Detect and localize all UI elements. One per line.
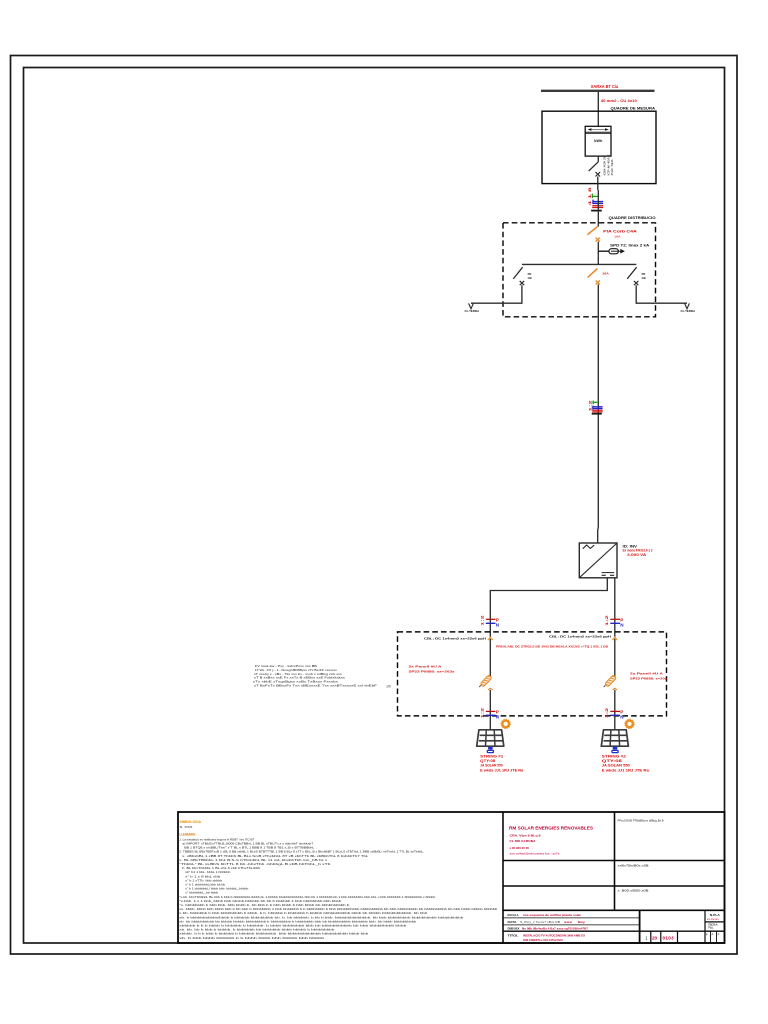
breaker F1 (orange)	[588, 227, 600, 242]
label: breaker F2	[602, 272, 609, 276]
svg-text:FULL: FULL	[709, 926, 714, 930]
svg-text:x 00 900 00 00: x 00 900 00 00	[510, 846, 530, 850]
svg-text:P: P	[706, 932, 708, 936]
wire: right PE drop	[636, 285, 687, 303]
svg-text:QTY:08: QTY:08	[480, 759, 495, 763]
breaker PE right	[627, 267, 645, 285]
svg-text:QTY:08: QTY:08	[602, 759, 622, 763]
wire: left PE drop	[471, 285, 522, 303]
svg-text:E wkds JJ1 1RJ JTE Ra: E wkds JJ1 1RJ JTE Ra	[480, 768, 523, 772]
svg-text:N.PLA: N.PLA	[710, 913, 720, 917]
svg-text:S. XXX: S. XXX	[180, 825, 193, 829]
label: cable spec acometida	[601, 99, 637, 103]
sun icon string 2	[624, 719, 634, 729]
DC fuse string 1 (hatched)	[479, 675, 500, 690]
svg-text:SOB COBERTA a XXX CATALUNYA: SOB COBERTA a XXX CATALUNYA	[523, 938, 564, 942]
connector string 2	[611, 747, 618, 754]
notes header	[180, 820, 202, 837]
wire: string 2 lower	[614, 690, 616, 730]
svg-text:IGM 40A 2P: IGM 40A 2P	[604, 155, 607, 176]
svg-text:P: P	[718, 932, 720, 936]
svg-text:CL.TERRA: CL.TERRA	[465, 309, 480, 313]
svg-text:SP22 P0888: xx=203x: SP22 P0888: xx=203x	[409, 669, 455, 673]
data row	[508, 920, 586, 924]
dibuix row	[508, 927, 589, 931]
junction chevron string 1 entry	[488, 637, 493, 640]
svg-text:xxx esquema de unifilar planta: xxx esquema de unifilar planta solar	[523, 913, 582, 917]
string combiner (dashed box)	[398, 632, 667, 716]
svg-text:CBL: DC 1x4mm2 xx=22x6 ppH: CBL: DC 1x4mm2 xx=22x6 ppH	[549, 634, 612, 638]
svg-text:20: 20	[652, 935, 658, 940]
svg-text:0103: 0103	[663, 935, 675, 940]
svg-text:1:2: 1:2	[589, 400, 593, 411]
svg-text:QUADRE DISTRIBUCIO: QUADRE DISTRIBUCIO	[609, 216, 656, 220]
svg-text:xx-xxxxx: xx-xxxxx	[707, 918, 720, 921]
project ref cell	[618, 819, 664, 823]
busbar: distribution	[522, 263, 636, 265]
svg-text:JA SOLAR 550: JA SOLAR 550	[602, 764, 630, 768]
titol row	[508, 933, 586, 942]
sun icon string 1	[501, 719, 511, 729]
svg-text:QUADRE DE MESURA: QUADRE DE MESURA	[611, 106, 656, 110]
connector string 1	[487, 747, 494, 754]
label: metering cabinet	[611, 106, 656, 110]
label: breaker ratings (vertical)	[604, 153, 614, 175]
wire: main run to inverter	[597, 284, 600, 543]
file cell	[618, 889, 649, 893]
svg-text:SP22 P0888: x=20x: SP22 P0888: x=20x	[630, 676, 667, 680]
svg-text:S_Rx(y_x Txxxx7 xBxL RB: S_Rx(y_x Txxxx7 xBxL RB	[520, 920, 560, 924]
cable marker: string 1 top	[479, 614, 499, 627]
notes body	[179, 837, 497, 939]
label: distribution board	[609, 216, 656, 220]
wire: string 1 lower	[489, 690, 491, 730]
svg-text:PIA Corb C4A: PIA Corb C4A	[603, 230, 637, 234]
wire: DC left string	[490, 578, 607, 676]
svg-text:CRA. VIps 8 BLq 8: CRA. VIps 8 BLq 8	[510, 834, 541, 838]
bus bar: utility grid	[541, 90, 655, 92]
svg-text:PPxxJG8 80 PTBxBBxxxx xBBxg_Bx: PPxxJG8 80 PTBxBBxxxx xBBxg_Bx B	[618, 819, 664, 823]
svg-text:PREALABL DC STRGLS BD JV02 DB: PREALABL DC STRGLS BD JV02 DB MSALA XX/J…	[496, 644, 608, 648]
PV array string 1	[477, 730, 504, 746]
svg-text:ICP-M 40A 2: ICP-M 40A 2	[607, 153, 610, 175]
cable marker: derivacion individual	[588, 187, 603, 210]
label: string 1 cable	[424, 637, 487, 641]
ground right	[681, 303, 696, 312]
svg-text:STRING #1: STRING #1	[480, 754, 503, 758]
svg-text:xxx: xxx	[564, 920, 573, 924]
meter M1	[585, 126, 611, 156]
label: SPD	[610, 243, 650, 247]
surge protector SPD	[598, 249, 625, 254]
junction chevron string 2 entry	[612, 637, 617, 640]
svg-text:TITOL: TITOL	[508, 933, 519, 937]
label: inverter	[623, 544, 653, 557]
svg-text:1:2: 1:2	[604, 614, 609, 626]
svg-text:ESCALA: ESCALA	[508, 913, 520, 917]
label: string 1 panels	[480, 754, 523, 772]
cable marker: string 2 top	[604, 614, 624, 627]
label: string 2 cable	[549, 634, 612, 638]
svg-text:LLEGENDA:: LLEGENDA:	[180, 833, 197, 837]
svg-text:P: P	[712, 932, 714, 936]
note block: design criteria	[253, 664, 377, 687]
node: utility grid label	[591, 84, 619, 89]
svg-text:Bxy: Bxy	[578, 920, 586, 924]
svg-text:CB: CB	[642, 276, 646, 280]
svg-text:z/h: z/h	[387, 685, 391, 689]
distribution board (dashed box)	[503, 223, 656, 317]
svg-text:16A: 16A	[614, 234, 621, 238]
breaker PE left	[513, 267, 531, 285]
svg-text:1:2: 1:2	[604, 706, 609, 718]
svg-text:x..B00.x/B00.x0B: x..B00.x/B00.x0B	[618, 889, 649, 893]
svg-text:4 1 8: 4 1 8	[588, 187, 592, 205]
svg-text:STRING #2: STRING #2	[602, 754, 626, 758]
svg-text:RM SOLAR ENERGIES RENOVABLES: RM SOLAR ENERGIES RENOVABLES	[509, 826, 593, 831]
svg-text:CBL: DC 1x4mm2 xx=22x6 ppH: CBL: DC 1x4mm2 xx=22x6 ppH	[424, 637, 487, 641]
svg-text:DIBUIX: DIBUIX	[508, 927, 520, 931]
wire: acometida	[597, 92, 599, 126]
svg-text:16A: 16A	[602, 272, 609, 276]
svg-text:1:2: 1:2	[479, 706, 484, 718]
label: string 1 rating	[409, 665, 455, 674]
company name	[509, 826, 593, 856]
DC fuse string 2 (hatched)	[604, 675, 617, 690]
wire: DC right string	[614, 578, 616, 676]
cable marker: string 2 bottom	[604, 706, 624, 719]
svg-text:xxx soflarl@wbsoxnba fxx - xx7: xxx soflarl@wbsoxnba fxx - xx7x	[510, 852, 560, 856]
label: string 2 rating	[630, 672, 667, 681]
svg-text:CL 800 GLRONA: CL 800 GLRONA	[510, 839, 537, 843]
svg-text:XARXA BT Cia: XARXA BT Cia	[591, 84, 619, 89]
svg-text:2x Panell #U A: 2x Panell #U A	[630, 672, 664, 676]
svg-text:No 08b 98x4xxBx 4 Bx7 xxxx x: No 08b 98x4xxBx 4 Bx7 xxxx xg7B BBAx47B7	[522, 927, 588, 931]
wire: down to SPD tap	[597, 242, 599, 265]
svg-text:E wkds JJ1 1RJ JTE Ra: E wkds JJ1 1RJ JTE Ra	[602, 768, 649, 772]
sheet number row	[645, 932, 720, 940]
svg-text:3.000 VA: 3.000 VA	[627, 553, 647, 557]
wire: to distribution board	[597, 190, 599, 227]
svg-text:kWh: kWh	[594, 139, 603, 143]
svg-text:1:2: 1:2	[479, 614, 484, 626]
PV array string 2	[601, 730, 628, 746]
svg-text:SPD T2: Imax 2 kA: SPD T2: Imax 2 kA	[610, 243, 650, 247]
plan number cell	[707, 913, 720, 921]
label: string 2 panels	[602, 754, 649, 772]
svg-text:CL.TERRA: CL.TERRA	[681, 309, 696, 313]
svg-text:PdC 6kA: PdC 6kA	[611, 159, 614, 176]
note block: tick mark	[387, 685, 391, 689]
title block frame	[178, 812, 725, 943]
label: combiner note	[496, 644, 608, 648]
svg-text:SIMBOLOGIA: SIMBOLOGIA	[180, 820, 202, 824]
svg-text:DATA: DATA	[508, 920, 518, 924]
svg-text:xxBx7Bx/B0x.x0B: xxBx7Bx/B0x.x0B	[618, 864, 649, 868]
svg-text:xb. b bbb bbbb bbbbbb b b bbbb: xb. b bbb bbbb bbbbbb b b bbbb bbbb.bbb …	[179, 936, 325, 940]
date cell	[618, 864, 649, 868]
metering cabinet box	[542, 111, 656, 183]
breaker F2 (orange)	[588, 269, 600, 285]
svg-text:xT BxFxTx BBxxFx Txx xBExxxxE: xT BxFxTx BBxxFx Txx xBExxxxE Txx xxxBTx…	[254, 683, 377, 687]
inverter U1	[579, 543, 617, 578]
escala row	[508, 913, 583, 917]
svg-text:INSTALACIO FV AUTOCONSUM 3kW A: INSTALACIO FV AUTOCONSUM 3kW AMB EX	[523, 933, 585, 937]
ground left	[465, 303, 480, 312]
escala/full cell	[709, 923, 718, 930]
svg-text:40 mm2 - CU 4x10: 40 mm2 - CU 4x10	[601, 99, 637, 103]
svg-text:JA SOLAR 550: JA SOLAR 550	[480, 764, 503, 768]
switch: IGM main breaker	[589, 156, 600, 190]
label: breaker F1	[603, 230, 637, 239]
svg-text:Sx mono PIKO3.0-1 2: Sx mono PIKO3.0-1 2	[623, 548, 653, 552]
cable marker: string 1 bottom	[479, 706, 499, 719]
cable marker: mid run	[589, 400, 603, 413]
svg-text:2x Panell #U A: 2x Panell #U A	[409, 665, 443, 669]
svg-text:CB: CB	[528, 276, 532, 280]
